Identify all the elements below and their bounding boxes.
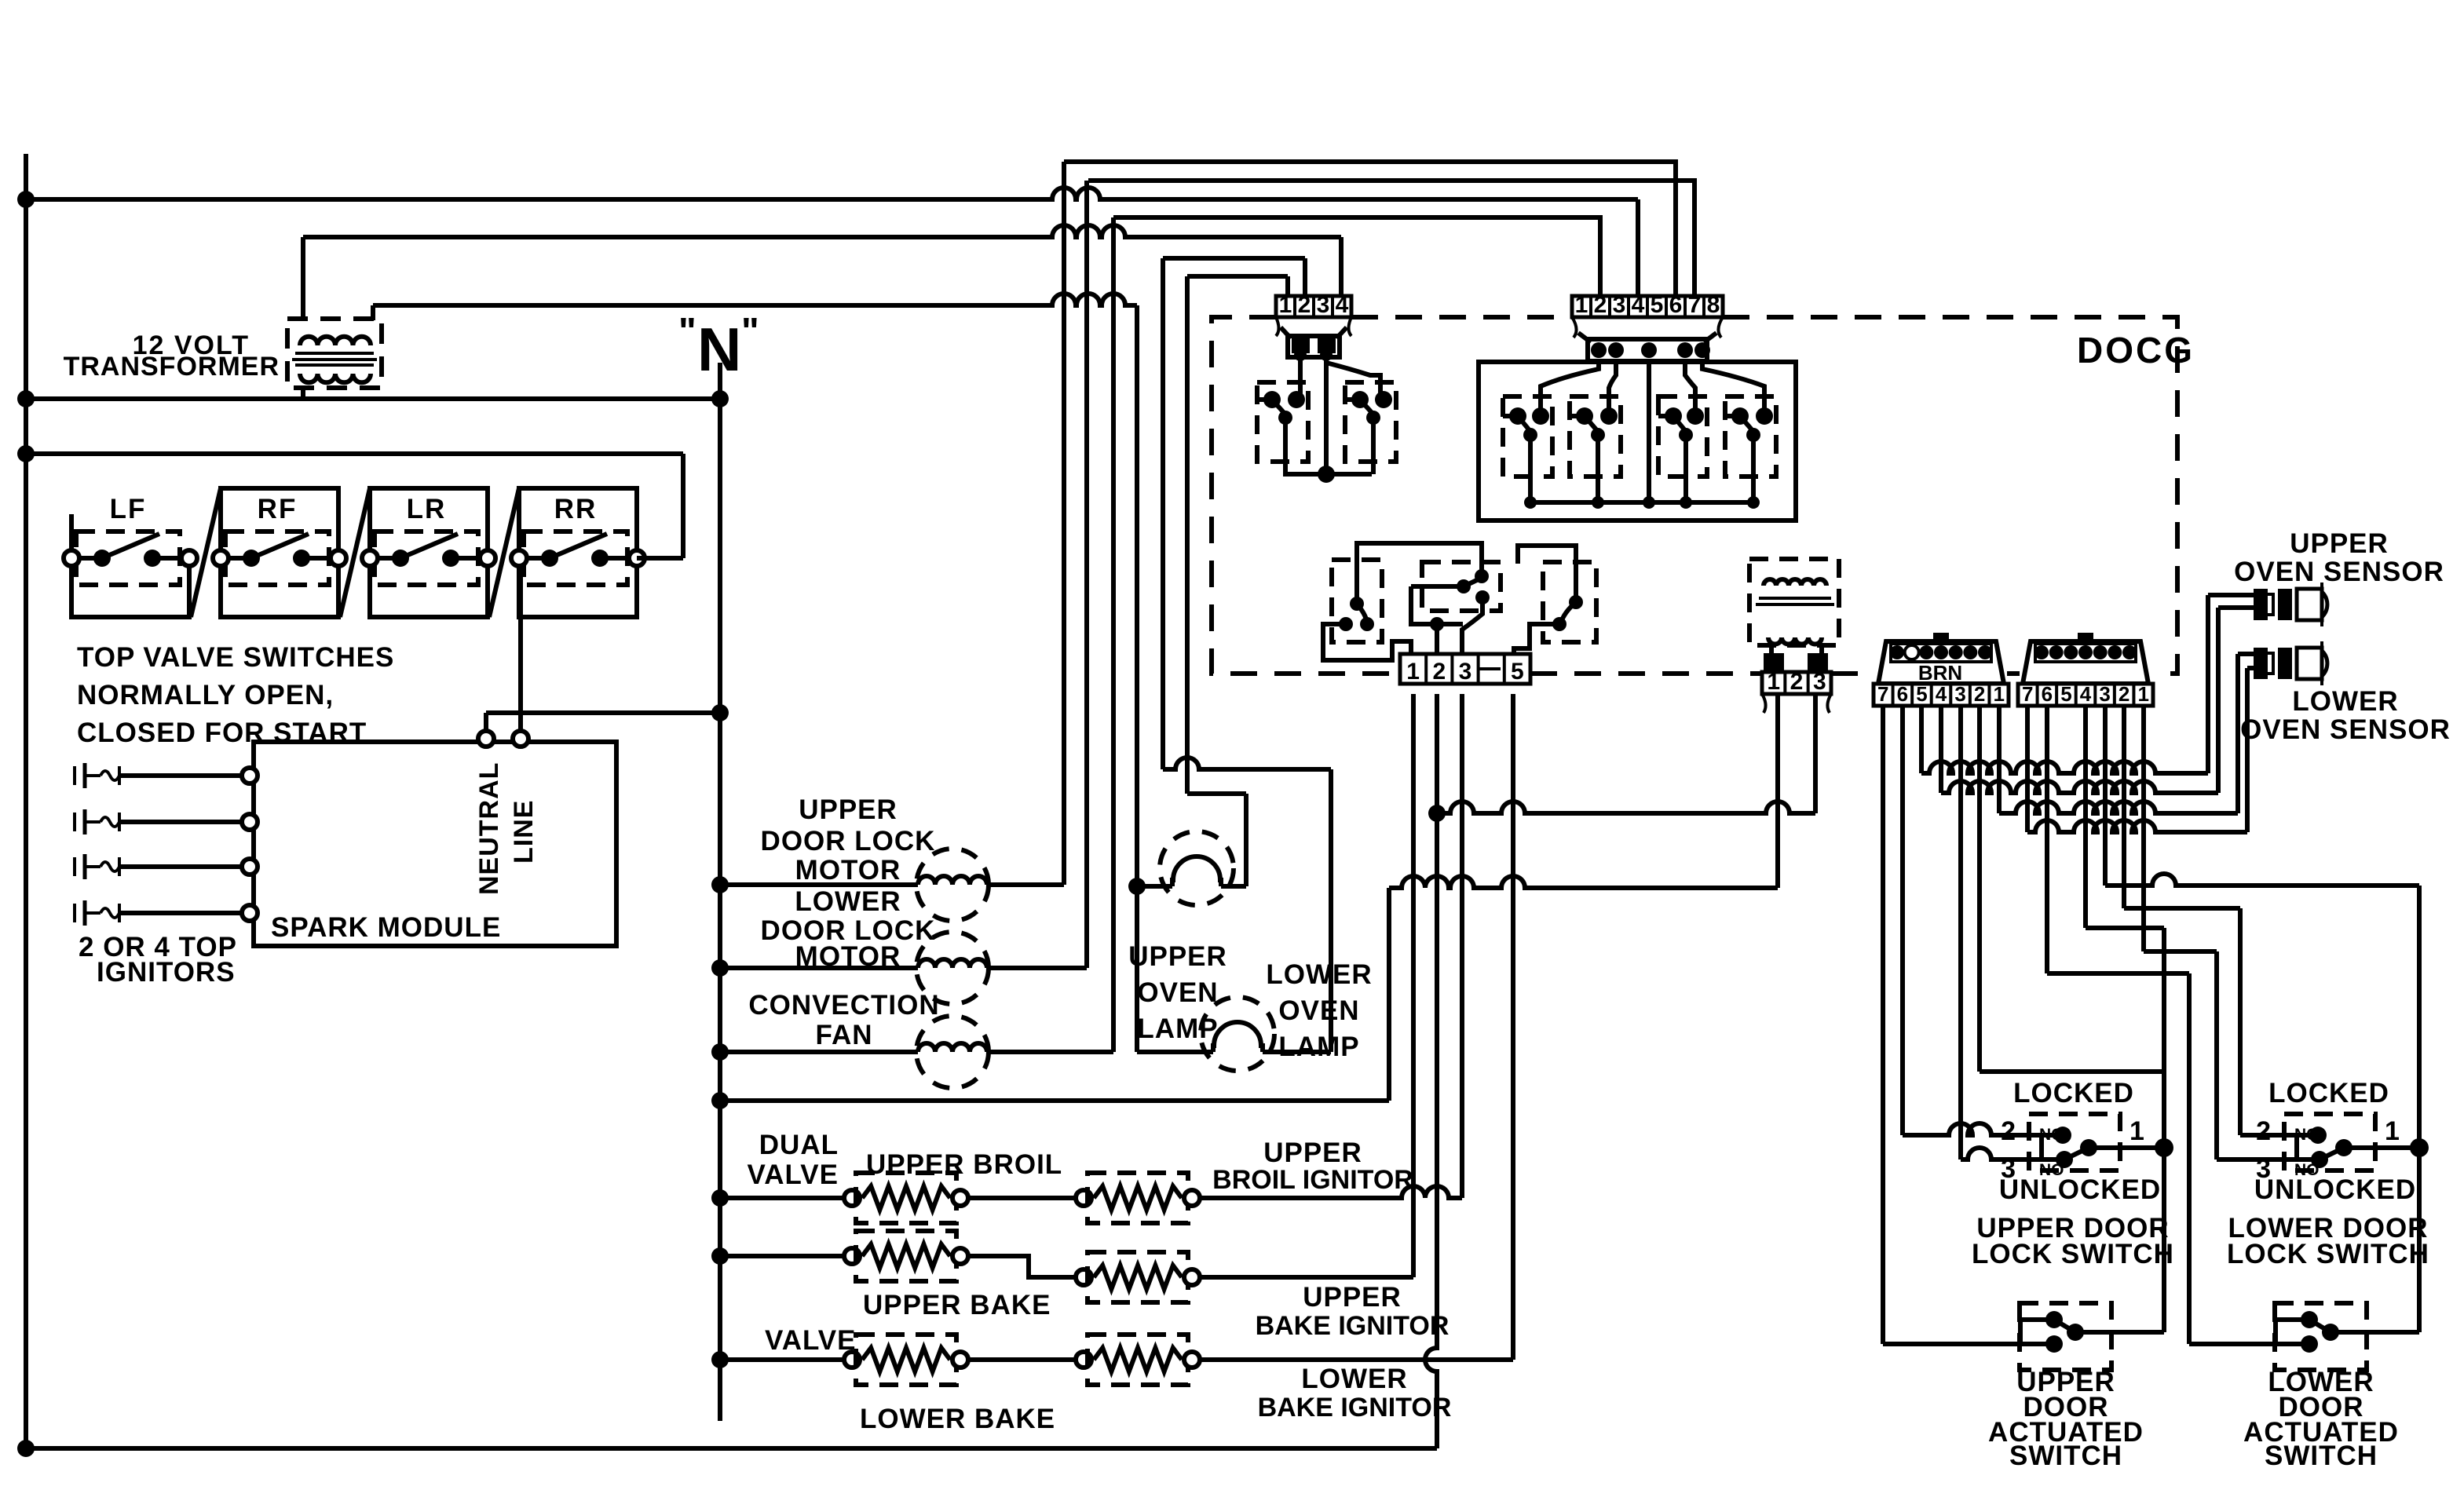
wire upper NC stub	[2039, 1135, 2044, 1159]
top ignitor 3	[73, 857, 76, 876]
svg-text:SWITCH: SWITCH	[2265, 1441, 2378, 1471]
svg-text:RR: RR	[554, 494, 598, 524]
sensor UPPER OVEN SENSOR	[2255, 590, 2266, 619]
transformer T1 12 VOLT TRANSFORMER	[287, 319, 382, 388]
relay K2 switch	[1570, 396, 1621, 477]
top ignitor 2	[73, 813, 76, 831]
svg-text:VALVE: VALVE	[765, 1325, 857, 1356]
node N y1127	[711, 876, 729, 893]
wire H y578 top-valve-switch return	[26, 451, 683, 456]
svg-text:2: 2	[1974, 682, 1985, 706]
relay K2 switch	[1503, 396, 1552, 477]
switch RF top valve switch	[221, 488, 338, 558]
resistor lower bake ignitor	[968, 1357, 1080, 1362]
svg-text:VALVE: VALVE	[748, 1159, 839, 1190]
svg-text:2: 2	[1298, 292, 1311, 318]
svg-text:5: 5	[1511, 659, 1524, 685]
node L1-C	[17, 445, 35, 462]
motor coil LOWER DOOR LOCK MOTOR	[720, 966, 918, 970]
relay K2 coil contact strip	[1578, 333, 1591, 342]
node L1-B	[17, 390, 35, 407]
transformer T2 DOCG	[1749, 559, 1839, 645]
svg-text:UPPER: UPPER	[2290, 528, 2389, 559]
resistor upper broil ignitor	[968, 1196, 1080, 1200]
wire upper broil ignitor to P3 pin3	[1200, 1186, 1462, 1198]
wire N vertical bus	[718, 363, 722, 1421]
node N y508	[711, 390, 729, 407]
wire E transformer primary top y302 to conn1234 pin4	[301, 237, 305, 320]
wire pin3 riser to middle lower contact	[1475, 590, 1490, 604]
svg-text:LF: LF	[110, 494, 147, 524]
svg-text:2: 2	[1790, 669, 1804, 695]
svg-text:2: 2	[1594, 292, 1607, 318]
svg-text:DUAL: DUAL	[759, 1130, 839, 1160]
svg-text:CONVECTION: CONVECTION	[748, 990, 939, 1021]
svg-text:DOOR LOCK: DOOR LOCK	[761, 826, 936, 856]
wire B2 to lower NC	[2122, 706, 2126, 908]
pin LINE	[513, 731, 528, 747]
svg-text:1: 1	[1279, 292, 1292, 318]
switch RR top valve switch	[519, 488, 637, 558]
node pin2 junction	[1428, 805, 1446, 822]
svg-text:UPPER: UPPER	[799, 794, 897, 825]
wire lower sensor lead 1	[2238, 652, 2255, 656]
wire B3 to lower lock pole	[2103, 706, 2108, 886]
pin NEUTRAL	[478, 731, 494, 747]
svg-text:SWITCH: SWITCH	[2009, 1441, 2122, 1471]
svg-text:BAKE IGNITOR: BAKE IGNITOR	[1258, 1393, 1452, 1422]
wire conn1234 pin2 feed y329	[1163, 256, 1305, 261]
wire lower lamp right feed from conn1234 pin2	[1161, 258, 1165, 769]
node N y1526	[711, 1189, 729, 1207]
svg-text:MOTOR: MOTOR	[795, 941, 901, 972]
svg-text:LOWER: LOWER	[1266, 959, 1372, 990]
wire v1355 upper door lock motor feed	[1062, 162, 1066, 885]
svg-text:7: 7	[1688, 292, 1702, 318]
svg-text:UNLOCKED: UNLOCKED	[1999, 1174, 2161, 1205]
svg-text:1: 1	[2137, 682, 2148, 706]
svg-text:FAN: FAN	[816, 1020, 873, 1050]
svg-text:LR: LR	[407, 494, 447, 524]
switch LF top valve switch	[71, 514, 189, 617]
wire upper sensor lead 1	[2208, 593, 2255, 597]
svg-text:8: 8	[1707, 292, 1720, 318]
wire K3 right contact to pin5	[1514, 624, 1559, 654]
svg-text:5: 5	[1651, 292, 1664, 318]
svg-text:LOCK SWITCH: LOCK SWITCH	[1972, 1239, 2174, 1269]
svg-text:BROIL IGNITOR: BROIL IGNITOR	[1212, 1165, 1413, 1195]
svg-text:NORMALLY OPEN,: NORMALLY OPEN,	[77, 680, 334, 710]
svg-text:MOTOR: MOTOR	[795, 855, 901, 886]
svg-text:NEUTRAL: NEUTRAL	[474, 762, 504, 895]
svg-text:3: 3	[1954, 682, 1965, 706]
svg-text:6: 6	[1897, 682, 1908, 706]
svg-text:1: 1	[1993, 682, 2004, 706]
svg-text:5: 5	[2060, 682, 2071, 706]
wire K2 switch bus	[1530, 500, 1753, 505]
wire K1 contact branch to switch S2	[1326, 363, 1380, 396]
wire pin2 riser	[1435, 624, 1439, 654]
node N y1233	[711, 959, 729, 977]
svg-text:IGNITORS: IGNITORS	[97, 957, 236, 988]
node N y1340	[711, 1043, 729, 1061]
lamp LOWER OVEN LAMP	[1201, 997, 1274, 1071]
wire D y277 to DOCG pin2 of 8-pin	[1113, 217, 1600, 296]
wire lower NC stub	[2294, 1135, 2299, 1159]
svg-text:BAKE IGNITOR: BAKE IGNITOR	[1256, 1311, 1450, 1341]
svg-text:4: 4	[1936, 682, 1947, 706]
wire K1 contact to switch S1	[1298, 357, 1303, 396]
wire A line1 y206 to DOCG pin6	[1064, 162, 1676, 296]
svg-text:1: 1	[1767, 669, 1780, 695]
wire K1 contact center down to bus	[1324, 357, 1329, 474]
wire upper sensor lead 2	[2218, 605, 2255, 610]
relay K2 switch	[1725, 396, 1776, 477]
relay switch dashed box	[1345, 382, 1396, 462]
wire RR left terminal down to spark module LINE pin	[518, 566, 523, 731]
svg-text:OVEN: OVEN	[1278, 995, 1359, 1026]
node N y1402	[711, 1092, 729, 1109]
svg-text:": "	[678, 311, 696, 352]
wire lower sensor lead 2	[2247, 666, 2255, 670]
svg-text:2: 2	[2001, 1116, 2016, 1146]
svg-text:3: 3	[1317, 292, 1330, 318]
wire B line2 y230 to DOCG pin7	[1088, 181, 1694, 296]
wire C y254 from left bus to DOCG pin4 of 8-pin	[26, 188, 1638, 199]
svg-text:UNLOCKED: UNLOCKED	[2254, 1174, 2416, 1205]
relay K1 coil contacts	[1281, 327, 1291, 338]
DOCG dashed enclosure	[1212, 317, 1400, 674]
relay T2 contacts	[1764, 653, 1784, 672]
svg-text:": "	[741, 311, 759, 352]
node L1-D	[17, 1440, 35, 1457]
relay K3 switch right	[1543, 562, 1596, 642]
svg-text:4: 4	[2080, 682, 2092, 706]
svg-text:6: 6	[1669, 292, 1683, 318]
svg-text:5: 5	[1916, 682, 1927, 706]
relay switch dashed box	[1257, 382, 1308, 462]
wire bottom bus	[26, 1446, 1437, 1451]
node N y908	[711, 704, 729, 721]
svg-text:UPPER: UPPER	[1303, 1282, 1402, 1313]
connector P1 1-2-3-4	[1276, 296, 1351, 317]
svg-text:1: 1	[1575, 292, 1588, 318]
resistor lower bake valve	[720, 1357, 852, 1362]
connector P2 1-8	[1572, 296, 1723, 317]
relay K3 switch left	[1332, 560, 1382, 642]
wire A2 to upper lock pole riser	[1977, 706, 1982, 1072]
wire P4 pin3 to relay dot	[1813, 694, 1818, 813]
switch LR top valve switch	[370, 488, 488, 558]
svg-text:6: 6	[2042, 682, 2053, 706]
svg-text:UPPER BAKE: UPPER BAKE	[863, 1290, 1051, 1320]
wire K3 right pole riser	[1518, 546, 1576, 602]
node N y1732	[711, 1351, 729, 1368]
wire lower bake ignitor to P3 pin5	[1200, 1357, 1513, 1362]
wire RR right terminal to return	[637, 556, 683, 561]
svg-text:2: 2	[2119, 682, 2129, 706]
svg-text:OVEN SENSOR: OVEN SENSOR	[2240, 714, 2451, 745]
svg-text:TOP VALVE SWITCHES: TOP VALVE SWITCHES	[77, 642, 394, 673]
svg-text:3: 3	[2099, 682, 2110, 706]
connector P3 1-2-3--5	[1400, 654, 1530, 684]
sensor LOWER OVEN SENSOR	[2255, 649, 2266, 677]
svg-text:1: 1	[2385, 1116, 2400, 1146]
wire upper bake jog	[968, 1256, 1080, 1277]
wires K2 strip to switches	[1541, 361, 1599, 416]
wire A3 to upper NO	[1958, 706, 1963, 1159]
svg-text:7: 7	[1877, 682, 1888, 706]
svg-text:LOWER: LOWER	[2292, 686, 2398, 717]
svg-text:7: 7	[2022, 682, 2033, 706]
svg-text:TRANSFORMER: TRANSFORMER	[64, 352, 280, 382]
svg-text:LOCKED: LOCKED	[2013, 1078, 2134, 1108]
svg-text:OVEN: OVEN	[1137, 977, 1218, 1008]
wire conn1234 pin1 feed y352	[1187, 274, 1288, 279]
relay K2 solid frame	[1479, 362, 1796, 520]
wire A7 to upper actuated switch	[1881, 706, 1885, 1344]
svg-text:SPARK MODULE: SPARK MODULE	[271, 912, 501, 943]
wire P4 pin1 to N loop	[1775, 694, 1780, 888]
svg-text:BRN: BRN	[1918, 661, 1962, 685]
motor coil UPPER DOOR LOCK MOTOR	[720, 882, 918, 887]
wire K1 switch bus	[1283, 472, 1372, 477]
wire B1 to lower NO	[2141, 706, 2146, 951]
wire v1418 convection fan feed	[1111, 217, 1116, 1052]
svg-text:3: 3	[1813, 669, 1826, 695]
wire N to spark module NEUTRAL pin	[486, 710, 720, 715]
svg-text:LOCKED: LOCKED	[2268, 1078, 2389, 1108]
svg-text:4: 4	[1632, 292, 1645, 318]
svg-text:UPPER: UPPER	[1263, 1138, 1362, 1168]
svg-text:2: 2	[2256, 1116, 2272, 1146]
svg-text:3: 3	[1613, 292, 1626, 318]
wire K3 left pole to middle contact	[1357, 543, 1482, 604]
wire L1 left vertical bus	[24, 154, 28, 1451]
svg-text:UPPER: UPPER	[1128, 941, 1227, 972]
wire B4 to upper lock pole	[2083, 706, 2088, 928]
svg-text:RF: RF	[258, 494, 298, 524]
connector B 7-pin	[2023, 641, 2148, 684]
switch LOWER door actuated	[2275, 1303, 2367, 1370]
wire lower actuated to pole junction	[2331, 1330, 2419, 1335]
svg-text:LAMP: LAMP	[1278, 1032, 1359, 1062]
svg-text:1: 1	[1406, 659, 1420, 685]
relay K2 switch	[1658, 396, 1707, 477]
svg-text:1: 1	[2129, 1116, 2145, 1146]
top ignitor 4	[73, 904, 76, 922]
connector A 7-pin	[1878, 641, 2004, 684]
svg-text:LOWER: LOWER	[795, 886, 901, 917]
svg-text:LOCK SWITCH: LOCK SWITCH	[2227, 1239, 2429, 1269]
spark module box	[254, 742, 616, 946]
wire upper actuated to pole junction	[2075, 1330, 2164, 1335]
top ignitor 1	[73, 766, 76, 785]
resistor upper broil valve	[720, 1196, 852, 1200]
svg-text:UPPER BROIL: UPPER BROIL	[866, 1149, 1062, 1180]
node N y1600	[711, 1247, 729, 1265]
relay K3 switch middle	[1422, 562, 1501, 611]
svg-text:LINE: LINE	[509, 800, 539, 864]
wire B6 to lower actuated switch	[2045, 706, 2049, 973]
svg-text:LOWER: LOWER	[1301, 1364, 1407, 1394]
svg-text:OVEN SENSOR: OVEN SENSOR	[2234, 557, 2444, 587]
wire A6 to upper NC	[1900, 706, 1905, 1135]
node lamp junction on v1448	[1128, 878, 1146, 895]
wire v1384 lower door lock motor feed	[1084, 181, 1089, 968]
svg-text:2: 2	[1432, 659, 1446, 685]
motor coil CONVECTION FAN	[720, 1050, 918, 1054]
wire F transformer secondary y389 to lamps feed v1448	[371, 305, 375, 320]
wire K3 left contact to pin1	[1323, 624, 1411, 660]
wire G y508 from left bus through transformer bottom to N	[26, 396, 720, 401]
wire upper lamp right feed from conn1234 pin1	[1185, 276, 1190, 794]
resistor upper bake valve	[720, 1254, 852, 1258]
wire P3 pin2 to bottom bus	[1425, 694, 1437, 1448]
lamp UPPER OVEN LAMP	[1160, 831, 1234, 905]
connector P4 1-2-3	[1762, 672, 1831, 694]
node L1-A	[17, 191, 35, 208]
svg-text:4: 4	[1336, 292, 1349, 318]
svg-text:3: 3	[1459, 659, 1472, 685]
resistor upper bake ignitor	[1076, 1269, 1091, 1285]
switch UPPER door actuated	[2020, 1303, 2111, 1370]
svg-text:LOWER BAKE: LOWER BAKE	[860, 1404, 1055, 1434]
svg-text:DOCG: DOCG	[2077, 330, 2195, 371]
wire upper bake ignitor to P3 pin1	[1200, 1275, 1413, 1280]
